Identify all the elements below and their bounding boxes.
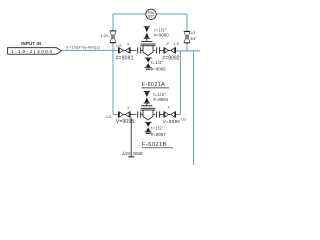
- label TL3 value: [116, 119, 135, 125]
- svg-text:INPUT IN: INPUT IN: [21, 41, 41, 46]
- label TL3 lambda: [127, 106, 130, 110]
- resonator Y1 stub top: [144, 27, 150, 42]
- label TL1 lambda: [127, 42, 130, 46]
- svg-text:LO: LO: [106, 115, 111, 119]
- capacitor gap C1: [138, 47, 141, 53]
- resonator Y2 stub bottom: [145, 122, 152, 133]
- label Y2 top num: [153, 97, 168, 102]
- svg-text:#=9091: #=9091: [116, 56, 134, 62]
- capacitor gap C2: [157, 47, 160, 53]
- svg-text:t=1/2": t=1/2": [151, 126, 164, 131]
- svg-text:λ'=1/2(λ=9)–W/2(1): λ'=1/2(λ=9)–W/2(1): [67, 45, 100, 49]
- label Y2 bot t: [151, 126, 164, 131]
- svg-text:F-6021A: F-6021A: [142, 82, 165, 88]
- svg-text:#=9097: #=9097: [151, 132, 166, 137]
- input wire parameter label: [67, 45, 100, 49]
- wire input net: [61, 49, 113, 51]
- svg-text:J8C1: J8C1: [147, 15, 155, 19]
- input signal flag 1-19-2(3000: [8, 48, 62, 55]
- label TL4 LO: [181, 117, 186, 121]
- wire C4 to TL4: [160, 114, 164, 116]
- svg-text:LO: LO: [191, 31, 196, 35]
- wire resonator to C4: [153, 114, 155, 116]
- resonator Y1 body: [141, 42, 156, 56]
- resonator Y2 body: [141, 106, 156, 120]
- svg-text:#=9092: #=9092: [162, 56, 180, 62]
- label Y2 top t: [153, 92, 166, 97]
- svg-text:#=9093: #=9093: [151, 67, 166, 72]
- svg-text:λ': λ': [127, 106, 130, 110]
- wire resonator to C2: [153, 49, 155, 51]
- svg-text:LO: LO: [181, 117, 186, 121]
- svg-text:LO: LO: [116, 44, 121, 48]
- svg-text:1-19-2(3000: 1-19-2(3000: [11, 49, 54, 55]
- label TL1 LO: [116, 44, 121, 48]
- svg-text:0618: 0618: [133, 151, 143, 156]
- svg-text:λ': λ': [168, 105, 171, 109]
- label F-6021A: [141, 82, 169, 88]
- label Y1 bot t: [151, 60, 164, 65]
- svg-text:#=9094: #=9094: [153, 97, 168, 102]
- label F-6021B: [142, 142, 173, 148]
- svg-text:F-6021B: F-6021B: [142, 142, 167, 148]
- node stub to lower port: [128, 118, 134, 157]
- wire C3 to resonator: [141, 114, 144, 116]
- label TL4 value: [163, 119, 181, 124]
- line section W1 on left rail: [110, 31, 116, 43]
- label TL4 lambda: [168, 105, 171, 109]
- svg-text:V=9096: V=9096: [163, 119, 181, 124]
- wire top rail: [113, 13, 187, 15]
- label Y2 bot num: [151, 132, 166, 137]
- resonator Y2 stub top: [144, 92, 150, 106]
- wire TL1 to C1: [130, 49, 136, 51]
- wire right drop to lower cell: [176, 51, 181, 115]
- capacitor gap C3: [138, 111, 141, 117]
- label Y1 bot num: [151, 67, 166, 72]
- svg-text:#=9090: #=9090: [154, 33, 169, 38]
- wire left rail: [113, 14, 118, 115]
- resonator Y1 stub bottom: [145, 58, 152, 69]
- label W2: [190, 31, 197, 41]
- meter M1: [146, 9, 156, 19]
- line section TL4 (lower right): [164, 111, 176, 117]
- label TL1 value: [116, 56, 134, 62]
- label W1: [101, 34, 109, 38]
- net label INPUT: [21, 41, 41, 46]
- label TL2 value: [162, 56, 180, 62]
- wire C1 to resonator: [141, 49, 144, 51]
- line section TL1 (upper left): [119, 47, 131, 53]
- label lower port left: [122, 151, 131, 156]
- label TL2 lambda: [166, 42, 178, 46]
- wire right drop off-page: [193, 51, 195, 165]
- svg-text:λ/24: λ/24: [122, 151, 131, 156]
- line section TL2 (upper right): [164, 47, 176, 53]
- wire TL3 to C3: [130, 114, 136, 116]
- label Y1 top num: [154, 33, 169, 38]
- capacitor gap C4: [157, 111, 160, 117]
- svg-text:1.0λ=: 1.0λ=: [101, 34, 109, 38]
- line section TL3 (lower left): [119, 111, 131, 117]
- svg-text:1.0: 1.0: [174, 42, 179, 46]
- svg-text:V=9095: V=9095: [116, 119, 135, 125]
- wire right bus: [176, 50, 200, 52]
- label TL3 LO: [106, 115, 111, 119]
- label Y1 top t: [154, 27, 167, 32]
- wire right rail: [186, 14, 188, 51]
- label lower port right: [133, 151, 143, 156]
- svg-text:3/4": 3/4": [190, 37, 197, 41]
- line section W2 on right rail: [184, 31, 190, 43]
- wire C2 to TL2: [160, 49, 164, 51]
- svg-text:λ': λ': [127, 42, 130, 46]
